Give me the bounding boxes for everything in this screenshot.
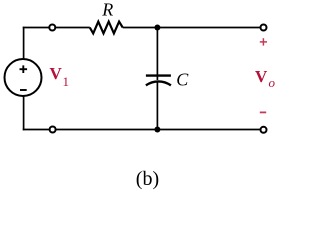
voltage source V1 <box>5 59 42 96</box>
wire: source top to top rail corner <box>23 27 25 60</box>
svg-text:V: V <box>255 67 268 86</box>
capacitor C <box>146 76 171 86</box>
resistor R <box>90 22 123 34</box>
node: bottom junction <box>154 127 160 133</box>
wire: resistor to top-right terminal <box>123 27 260 29</box>
wire: bottom rail to bottom-right terminal <box>56 129 260 131</box>
label + (output polarity) <box>260 38 267 45</box>
svg-text:(b): (b) <box>136 168 159 190</box>
label - (output polarity) <box>260 111 266 113</box>
svg-text:V: V <box>50 64 63 83</box>
wire: top node down to capacitor <box>156 28 158 81</box>
svg-text:C: C <box>176 70 189 90</box>
wire: source bottom to bottom rail corner <box>23 96 25 131</box>
wire: capacitor to bottom node <box>156 82 158 130</box>
svg-text:o: o <box>269 75 276 90</box>
node: top junction <box>154 25 160 31</box>
wire: terminal to resistor <box>56 27 90 29</box>
terminal (top left open node) <box>49 25 55 31</box>
terminal (top right open node) <box>261 25 267 31</box>
svg-text:R: R <box>101 0 113 20</box>
svg-text:1: 1 <box>63 74 70 89</box>
wire: bottom rail left segment <box>23 129 50 131</box>
terminal (bottom right open node) <box>261 127 267 133</box>
wire: top rail left segment <box>23 27 49 29</box>
terminal (bottom left open node) <box>50 127 56 133</box>
